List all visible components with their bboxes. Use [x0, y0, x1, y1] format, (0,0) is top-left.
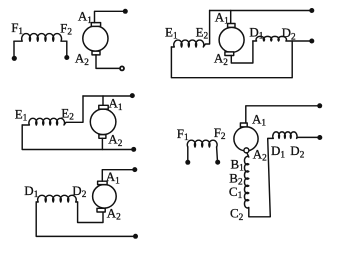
svg-text:D2: D2 [72, 183, 86, 200]
svg-text:D2: D2 [282, 25, 296, 42]
svg-text:F1: F1 [177, 126, 189, 143]
svg-text:C2: C2 [230, 206, 244, 223]
svg-text:A2: A2 [253, 147, 267, 164]
svg-text:A2: A2 [108, 132, 122, 149]
svg-text:E1: E1 [165, 24, 178, 41]
svg-text:A1: A1 [215, 9, 229, 26]
svg-text:A1: A1 [106, 169, 120, 186]
svg-text:D1: D1 [24, 183, 38, 200]
svg-text:A1: A1 [109, 96, 123, 113]
svg-text:F2: F2 [214, 125, 226, 142]
svg-text:A1: A1 [252, 111, 266, 128]
svg-text:A1: A1 [78, 9, 92, 26]
svg-text:E2: E2 [196, 24, 209, 41]
svg-text:F1: F1 [11, 20, 23, 37]
svg-text:D2: D2 [290, 143, 304, 160]
svg-text:D1: D1 [249, 25, 263, 42]
svg-text:D1: D1 [271, 143, 285, 160]
svg-text:E2: E2 [61, 105, 74, 122]
svg-text:A2: A2 [107, 205, 121, 222]
svg-text:A2: A2 [75, 51, 89, 68]
svg-text:F2: F2 [60, 20, 72, 37]
svg-text:E1: E1 [15, 107, 28, 124]
